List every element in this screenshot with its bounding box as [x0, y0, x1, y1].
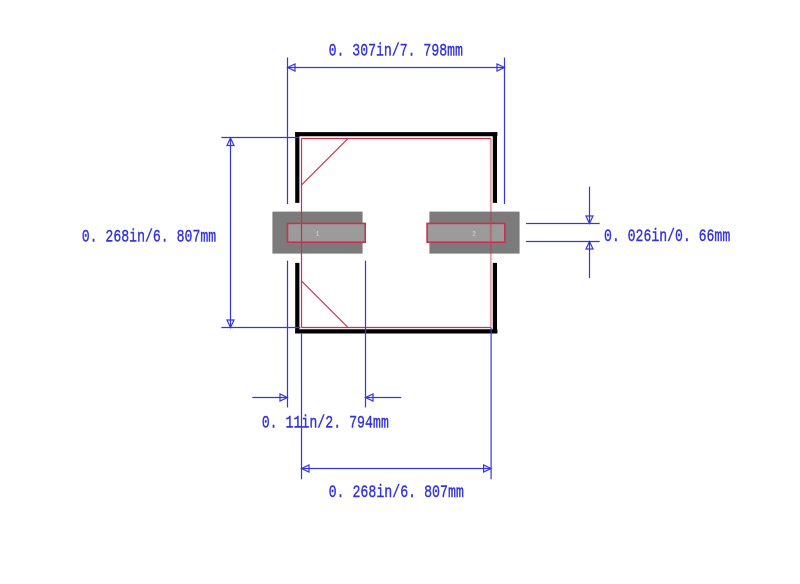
red diagonal top-left polarity mark: [302, 139, 349, 186]
right dimension upper arrow pointing down: [586, 216, 593, 224]
bottom dimension extension line left: [301, 334, 303, 480]
right dimension vertical line lower: [589, 242, 591, 278]
top dimension extension line left lower part: [287, 261, 289, 408]
top dimension line: [288, 67, 505, 69]
svg-text:0. 307in/7. 798mm: 0. 307in/7. 798mm: [329, 41, 463, 62]
left dimension extension line top: [221, 137, 299, 139]
red courtyard left line: [301, 139, 303, 328]
bottom dimension extension line right: [490, 328, 492, 480]
top dimension extension line left (shared with 0.11in dim) upper part: [287, 58, 289, 205]
svg-text:1: 1: [316, 230, 320, 237]
right dimension vertical line upper: [589, 187, 591, 224]
left dimension extension line bottom: [221, 327, 300, 329]
pitch dimension extension line right: [365, 261, 367, 408]
svg-text:0. 11in/2. 794mm: 0. 11in/2. 794mm: [262, 412, 389, 433]
pad 1 outer (solder mask): [272, 212, 362, 254]
svg-text:2: 2: [472, 230, 476, 237]
red diagonal bottom-left polarity mark: [302, 281, 349, 328]
pitch dimension left arrow pointing right: [280, 394, 288, 401]
red courtyard right line (faint): [490, 139, 492, 328]
body outline black left upper segment: [295, 132, 299, 203]
body outline black left lower segment: [295, 263, 299, 334]
pitch dimension left arrow line: [252, 397, 287, 399]
bottom dimension line: [302, 468, 492, 470]
body outline black right upper segment: [493, 132, 497, 203]
pad 2 outer (solder mask): [429, 212, 519, 254]
svg-text:0. 026in/0. 66mm: 0. 026in/0. 66mm: [604, 226, 730, 247]
right dimension extension line upper: [526, 223, 600, 225]
body outline black top: [295, 132, 497, 136]
red courtyard top line: [302, 138, 491, 140]
body outline black right lower segment: [493, 263, 497, 334]
top dimension extension line right: [504, 58, 506, 205]
right dimension extension line lower: [526, 241, 600, 243]
bottom dimension left arrow: [302, 465, 310, 472]
pitch dimension right arrow line: [366, 397, 402, 399]
svg-text:0. 268in/6. 807mm: 0. 268in/6. 807mm: [329, 482, 464, 502]
top dimension left arrow: [288, 64, 296, 71]
pad 2 inner copper: [427, 223, 505, 242]
svg-text:0. 268in/6. 807mm: 0. 268in/6. 807mm: [82, 227, 216, 248]
body outline black bottom: [295, 329, 497, 333]
pad 1 inner copper: [288, 223, 366, 242]
left dimension top arrow: [227, 138, 234, 146]
bottom dimension right arrow: [484, 465, 492, 472]
pitch dimension right arrow pointing left: [366, 394, 374, 401]
red courtyard bottom line: [302, 327, 491, 329]
left dimension line: [230, 138, 232, 328]
left dimension bottom arrow: [227, 320, 234, 328]
top dimension right arrow: [497, 64, 505, 71]
right dimension lower arrow pointing up: [586, 242, 593, 250]
